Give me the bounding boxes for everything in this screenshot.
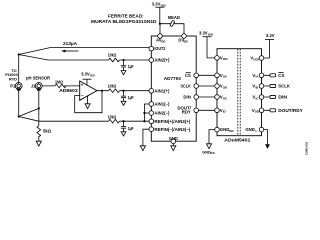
svg-text:DD: DD <box>184 39 188 43</box>
svg-text:1µF: 1µF <box>128 95 134 100</box>
svg-text:11981-001: 11981-001 <box>305 141 309 155</box>
svg-text:10kΩ: 10kΩ <box>108 52 117 57</box>
svg-text:REFIN(+)/AIN3(+): REFIN(+)/AIN3(+) <box>154 119 191 124</box>
svg-text:3.3V: 3.3V <box>81 72 90 77</box>
svg-text:GND: GND <box>245 127 255 132</box>
svg-text:DD1: DD1 <box>254 57 260 61</box>
svg-text:SCLK: SCLK <box>181 84 192 89</box>
svg-text:RTD: RTD <box>9 76 17 81</box>
svg-text:DIN: DIN <box>183 95 190 100</box>
svg-text:DD: DD <box>161 39 165 43</box>
svg-text:AD8603: AD8603 <box>59 88 78 93</box>
svg-text:OC: OC <box>223 96 228 100</box>
svg-text:ISO: ISO <box>210 151 214 155</box>
svg-text:ADuM5401: ADuM5401 <box>224 138 250 144</box>
svg-text:AIN1(+): AIN1(+) <box>154 88 170 93</box>
svg-text:CS: CS <box>185 73 191 78</box>
svg-text:IC: IC <box>256 96 260 100</box>
svg-text:pH SENSOR: pH SENSOR <box>26 76 50 81</box>
svg-text:10kΩ: 10kΩ <box>108 115 117 120</box>
svg-text:GND: GND <box>169 136 178 141</box>
svg-text:1µF: 1µF <box>128 64 134 69</box>
svg-text:DOUT/RDY: DOUT/RDY <box>278 108 303 113</box>
svg-text:CS: CS <box>278 73 284 78</box>
svg-text:3.3V: 3.3V <box>266 33 275 38</box>
svg-text:BEAD: BEAD <box>168 15 180 20</box>
svg-text:OD: OD <box>255 110 259 114</box>
svg-text:3.3V: 3.3V <box>152 2 161 7</box>
svg-text:−: − <box>81 93 84 98</box>
svg-text:OB: OB <box>223 85 227 89</box>
svg-text:ISO: ISO <box>90 74 96 78</box>
svg-text:P1: P1 <box>10 83 16 88</box>
svg-text:IA: IA <box>256 75 260 79</box>
svg-text:FERRITE BEAD:: FERRITE BEAD: <box>108 13 144 18</box>
svg-text:SCLK: SCLK <box>278 84 290 89</box>
svg-text:AIN1(−): AIN1(−) <box>154 102 170 107</box>
svg-text:J1: J1 <box>31 83 36 88</box>
svg-text:ISO: ISO <box>208 33 214 37</box>
svg-text:1µF: 1µF <box>128 126 134 131</box>
svg-text:OA: OA <box>223 75 228 79</box>
svg-text:10kΩ: 10kΩ <box>108 84 117 89</box>
svg-text:1: 1 <box>255 129 257 133</box>
svg-text:DIN: DIN <box>278 95 287 100</box>
svg-text:IB: IB <box>256 85 259 89</box>
svg-text:AD7793: AD7793 <box>164 76 181 82</box>
svg-text:IOUT2: IOUT2 <box>154 46 166 51</box>
svg-text:213µA: 213µA <box>63 41 77 46</box>
svg-text:ID: ID <box>223 110 226 114</box>
svg-text:REFIN(−)/AIN3(−): REFIN(−)/AIN3(−) <box>154 127 191 132</box>
svg-text:5kΩ: 5kΩ <box>43 128 52 133</box>
svg-text:AIN2(+): AIN2(+) <box>154 58 170 63</box>
svg-text:1MΩ: 1MΩ <box>55 79 63 84</box>
svg-text:+: + <box>81 82 84 87</box>
svg-text:3.3V: 3.3V <box>199 31 208 36</box>
svg-text:ISO: ISO <box>229 129 235 133</box>
svg-text:MURATA BLM21PG331SN1D: MURATA BLM21PG331SN1D <box>91 19 157 24</box>
svg-text:AIN2(−): AIN2(−) <box>154 111 170 116</box>
svg-text:ISO: ISO <box>223 57 229 61</box>
svg-text:RDY: RDY <box>182 110 191 115</box>
